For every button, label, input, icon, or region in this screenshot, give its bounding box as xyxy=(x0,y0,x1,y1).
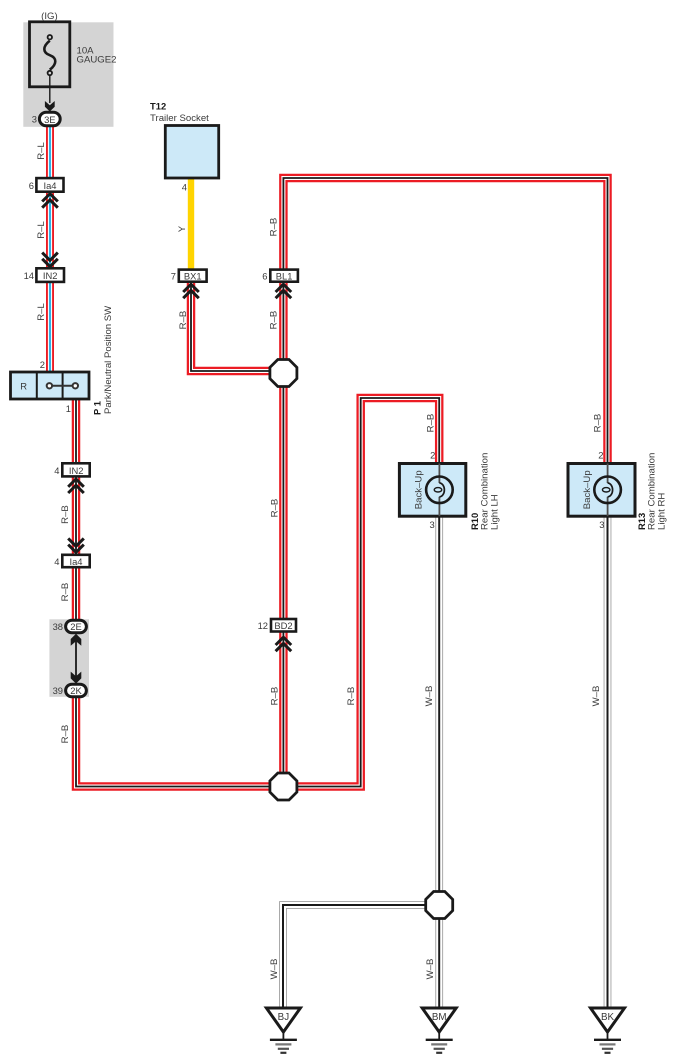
svg-text:4: 4 xyxy=(54,465,59,476)
svg-text:R–B: R–B xyxy=(592,414,603,433)
svg-text:R10: R10 xyxy=(469,513,480,530)
svg-text:R–B: R–B xyxy=(269,311,280,330)
svg-text:BD2: BD2 xyxy=(274,620,292,631)
svg-text:IN2: IN2 xyxy=(43,270,58,281)
svg-text:W–B: W–B xyxy=(591,686,602,707)
svg-text:6: 6 xyxy=(29,180,34,191)
svg-text:6: 6 xyxy=(262,270,267,281)
svg-text:W–B: W–B xyxy=(425,959,436,980)
svg-text:38: 38 xyxy=(53,621,63,632)
svg-text:R–B: R–B xyxy=(60,725,71,744)
svg-text:14: 14 xyxy=(24,270,34,281)
svg-text:Y: Y xyxy=(177,225,188,232)
svg-text:R–B: R–B xyxy=(178,311,189,330)
svg-text:BX1: BX1 xyxy=(184,270,202,281)
svg-text:Trailer Socket: Trailer Socket xyxy=(150,113,209,124)
svg-text:W–B: W–B xyxy=(269,959,280,980)
svg-text:Light RH: Light RH xyxy=(656,493,667,530)
svg-text:(IG): (IG) xyxy=(41,11,58,22)
svg-text:Back–Up: Back–Up xyxy=(414,470,425,509)
svg-text:2E: 2E xyxy=(70,621,81,632)
svg-text:BK: BK xyxy=(601,1012,615,1023)
svg-text:GAUGE2: GAUGE2 xyxy=(77,55,117,66)
svg-text:2: 2 xyxy=(598,450,603,461)
svg-text:R–B: R–B xyxy=(269,218,280,237)
svg-text:R13: R13 xyxy=(636,513,647,530)
svg-text:R: R xyxy=(20,381,27,392)
svg-text:R–B: R–B xyxy=(426,414,437,433)
svg-text:BJ: BJ xyxy=(278,1012,290,1023)
svg-text:1: 1 xyxy=(66,403,71,414)
svg-text:T12: T12 xyxy=(150,101,166,112)
svg-text:3: 3 xyxy=(429,519,434,530)
svg-text:4: 4 xyxy=(182,182,187,193)
svg-text:3E: 3E xyxy=(44,114,55,125)
svg-text:3: 3 xyxy=(32,114,37,125)
svg-text:R–B: R–B xyxy=(60,583,71,602)
svg-text:2K: 2K xyxy=(70,685,82,696)
svg-text:12: 12 xyxy=(258,620,268,631)
svg-text:R–B: R–B xyxy=(346,687,357,706)
svg-text:R–L: R–L xyxy=(36,303,47,321)
svg-text:BL1: BL1 xyxy=(276,270,293,281)
svg-text:Back–Up: Back–Up xyxy=(582,470,593,509)
svg-text:IN2: IN2 xyxy=(69,465,84,476)
svg-text:4: 4 xyxy=(54,556,59,567)
svg-text:BM: BM xyxy=(432,1012,447,1023)
svg-text:W–B: W–B xyxy=(424,686,435,707)
svg-text:R–B: R–B xyxy=(60,505,71,524)
svg-text:R–L: R–L xyxy=(36,142,47,160)
svg-text:Light LH: Light LH xyxy=(489,494,500,530)
svg-text:R–B: R–B xyxy=(269,499,280,518)
svg-text:2: 2 xyxy=(430,450,435,461)
svg-text:2: 2 xyxy=(40,359,45,370)
svg-text:P 1: P 1 xyxy=(92,401,103,415)
svg-text:Ia4: Ia4 xyxy=(43,180,56,191)
svg-text:39: 39 xyxy=(53,685,63,696)
svg-text:Park/Neutral Position SW: Park/Neutral Position SW xyxy=(103,305,114,414)
svg-text:R–L: R–L xyxy=(36,221,47,239)
svg-text:3: 3 xyxy=(599,519,604,530)
svg-text:R–B: R–B xyxy=(269,687,280,706)
svg-text:7: 7 xyxy=(171,270,176,281)
svg-text:Ia4: Ia4 xyxy=(69,556,82,567)
